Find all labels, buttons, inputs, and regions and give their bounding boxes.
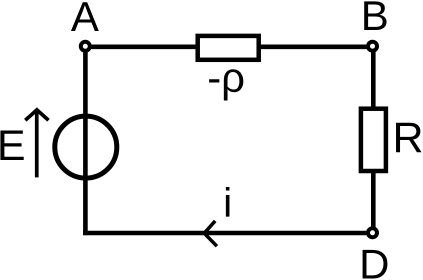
wire right resistor R to D <box>371 170 376 233</box>
svg-text:A: A <box>71 0 99 40</box>
wire left A to bottom corner <box>83 47 88 235</box>
wire right B to resistor R <box>371 47 376 110</box>
wire top-right resistor to B <box>259 44 373 49</box>
svg-text:D: D <box>359 241 389 280</box>
svg-text:-ρ: -ρ <box>207 54 245 101</box>
source E (circle) <box>55 116 117 178</box>
svg-text:R: R <box>393 114 423 162</box>
i current arrow <box>204 221 217 246</box>
E arrow <box>25 110 48 177</box>
svg-text:B: B <box>361 0 389 39</box>
node B <box>368 42 377 51</box>
svg-text:i: i <box>223 179 232 225</box>
resistor R (box) <box>361 109 386 171</box>
wire bottom corner to D <box>83 231 372 236</box>
node D <box>368 228 377 237</box>
node A <box>81 42 90 51</box>
resistor -rho (box) <box>198 36 259 60</box>
svg-text:E: E <box>0 122 26 170</box>
wire top-left A to resistor <box>85 44 198 49</box>
